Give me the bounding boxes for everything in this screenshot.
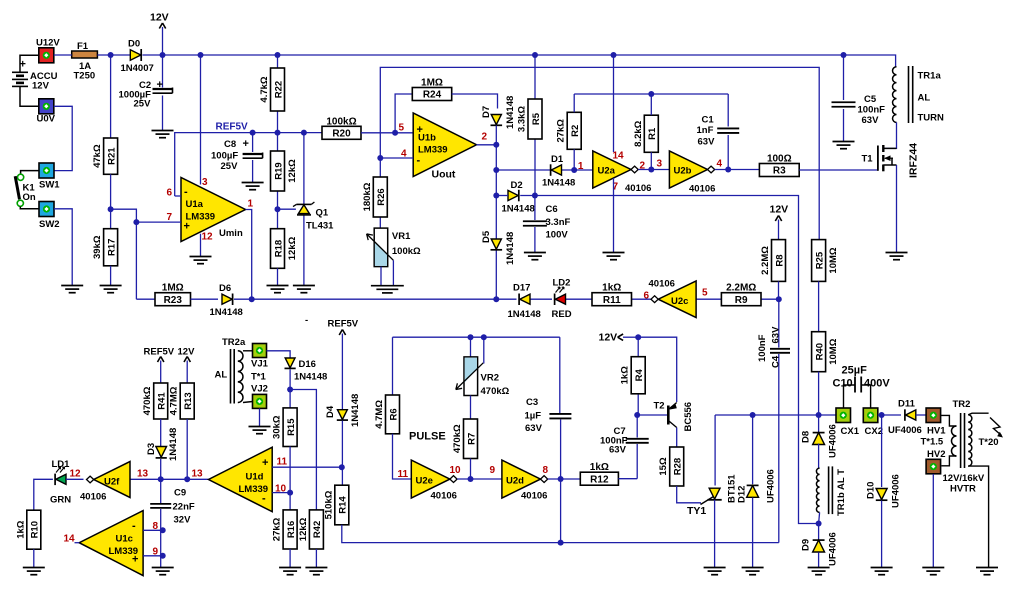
svg-text:AL: AL bbox=[918, 93, 931, 104]
resistor R2 bbox=[556, 112, 582, 149]
svg-text:R14: R14 bbox=[338, 496, 349, 514]
net label 12V mid bbox=[599, 332, 639, 344]
svg-text:LD2: LD2 bbox=[553, 278, 571, 289]
pin 11 label U1d bbox=[277, 457, 288, 468]
diode D2 bbox=[502, 180, 535, 215]
svg-text:C8: C8 bbox=[224, 139, 236, 150]
junction D12 top bbox=[750, 412, 756, 418]
svg-text:25V: 25V bbox=[221, 161, 239, 172]
svg-text:C9: C9 bbox=[174, 488, 186, 499]
wire feedback rail bbox=[574, 93, 728, 95]
pin 5 label U2c bbox=[702, 288, 708, 299]
svg-text:C5: C5 bbox=[864, 94, 877, 105]
connector CX2 bbox=[863, 408, 883, 437]
svg-text:6: 6 bbox=[644, 291, 650, 302]
svg-text:LM339: LM339 bbox=[109, 546, 139, 557]
connector VJ2 bbox=[251, 384, 268, 409]
diode D0 bbox=[121, 39, 154, 75]
svg-text:27kΩ: 27kΩ bbox=[556, 119, 567, 143]
svg-text:D11: D11 bbox=[898, 399, 916, 410]
svg-text:39kΩ: 39kΩ bbox=[92, 235, 103, 259]
junction pin7 bbox=[133, 219, 139, 225]
svg-text:25V: 25V bbox=[134, 99, 152, 110]
wire U12V to fuse bbox=[54, 54, 72, 56]
svg-text:D12: D12 bbox=[737, 486, 748, 503]
inverter U2a bbox=[593, 151, 638, 188]
svg-text:TY1: TY1 bbox=[687, 505, 706, 517]
ground U1a bbox=[190, 257, 212, 264]
svg-text:13: 13 bbox=[137, 469, 149, 480]
pin 10 label U1d bbox=[275, 484, 287, 495]
ground R10 bbox=[23, 568, 45, 575]
wire D9 ground bbox=[818, 552, 820, 567]
svg-text:LM339: LM339 bbox=[239, 484, 269, 495]
wire D10 ground bbox=[881, 501, 883, 568]
svg-text:5: 5 bbox=[399, 123, 405, 134]
pin 5 label bbox=[399, 123, 405, 134]
svg-text:6: 6 bbox=[167, 188, 173, 199]
svg-text:14: 14 bbox=[613, 151, 625, 162]
op-amp U1d (mirrored) bbox=[209, 447, 273, 512]
svg-text:12kΩ: 12kΩ bbox=[287, 236, 298, 260]
svg-text:TR2a: TR2a bbox=[222, 337, 246, 348]
svg-text:8: 8 bbox=[543, 465, 549, 476]
junction D2 row bbox=[493, 193, 499, 199]
svg-text:4.7MΩ: 4.7MΩ bbox=[374, 400, 385, 429]
svg-text:Uout: Uout bbox=[432, 169, 456, 181]
svg-text:63V: 63V bbox=[698, 137, 716, 148]
svg-text:TR1b AL T: TR1b AL T bbox=[836, 469, 847, 516]
wire SW2 to ground bbox=[54, 209, 72, 285]
svg-text:100nF: 100nF bbox=[858, 105, 886, 116]
svg-text:TR1a: TR1a bbox=[918, 71, 942, 82]
diode D12 bbox=[747, 415, 777, 567]
connector HV2 bbox=[926, 449, 945, 474]
wire R12-C7 bbox=[618, 478, 637, 480]
svg-text:RED: RED bbox=[552, 309, 572, 320]
wire C3 bbox=[559, 337, 562, 542]
net label 12V bottom-left bbox=[178, 347, 196, 384]
wire D16 to R42 line bbox=[290, 390, 316, 510]
svg-text:R7: R7 bbox=[466, 433, 477, 445]
svg-text:HV2: HV2 bbox=[927, 449, 945, 460]
svg-text:UF4006: UF4006 bbox=[828, 424, 839, 458]
led LD2 RED bbox=[552, 278, 572, 321]
wire LD2 row bbox=[496, 298, 779, 300]
junction D16 bbox=[287, 387, 293, 393]
label 40106 U2d bbox=[521, 491, 547, 502]
svg-text:1N4148: 1N4148 bbox=[508, 309, 541, 320]
svg-text:T1: T1 bbox=[862, 154, 874, 165]
resistor R17 bbox=[92, 229, 118, 266]
resistor R26 bbox=[362, 177, 388, 217]
ground Q1 bbox=[293, 286, 315, 293]
junction C6 top bbox=[532, 193, 538, 199]
pin 3 label U2b bbox=[657, 159, 663, 170]
wire VR2-R7 bbox=[470, 396, 472, 420]
svg-text:REF5V: REF5V bbox=[144, 347, 175, 358]
svg-text:12: 12 bbox=[70, 469, 82, 480]
svg-text:R1: R1 bbox=[647, 127, 658, 140]
wire TR1a to T1 drain bbox=[885, 122, 897, 148]
junction T2 base bbox=[634, 412, 640, 418]
wire TR1b bottom bbox=[819, 512, 820, 523]
resistor R25 bbox=[812, 240, 840, 282]
svg-text:2.2MΩ: 2.2MΩ bbox=[760, 246, 771, 275]
ground C5 bbox=[833, 142, 855, 149]
svg-text:3: 3 bbox=[657, 159, 663, 170]
svg-text:-: - bbox=[132, 520, 136, 532]
diode D9 bbox=[801, 524, 839, 567]
wire D4 bottom bbox=[341, 421, 343, 486]
led LD1 GRN bbox=[34, 459, 71, 510]
svg-text:U1d: U1d bbox=[246, 472, 264, 483]
svg-text:D4: D4 bbox=[325, 405, 336, 418]
svg-text:R42: R42 bbox=[312, 521, 323, 538]
svg-text:R28: R28 bbox=[673, 458, 684, 475]
svg-text:100kΩ: 100kΩ bbox=[392, 246, 421, 257]
junction R24 left bbox=[392, 130, 398, 136]
svg-text:SW1: SW1 bbox=[39, 180, 60, 191]
connector CX1 bbox=[836, 408, 860, 437]
svg-text:U2e: U2e bbox=[416, 476, 433, 487]
svg-text:1MΩ: 1MΩ bbox=[421, 78, 443, 89]
svg-text:10MΩ: 10MΩ bbox=[828, 338, 839, 364]
capacitor C8 bbox=[211, 138, 263, 172]
wire R25-R40 bbox=[818, 281, 820, 331]
junction U2a out bbox=[648, 167, 654, 173]
wire R24 right leg bbox=[452, 94, 498, 109]
wire bottom main row bbox=[130, 478, 209, 480]
svg-text:U1a: U1a bbox=[186, 199, 204, 210]
pin 4 label U2b bbox=[717, 159, 723, 170]
svg-text:R23: R23 bbox=[164, 295, 183, 306]
resistor R22 bbox=[259, 68, 285, 111]
wire R18 ground bbox=[277, 268, 279, 285]
svg-text:SW2: SW2 bbox=[39, 219, 60, 230]
resistor R18 bbox=[271, 229, 299, 269]
svg-text:63V: 63V bbox=[862, 115, 880, 126]
svg-text:T*20: T*20 bbox=[979, 437, 999, 448]
svg-text:R5: R5 bbox=[531, 112, 542, 125]
transformer TR1a bbox=[893, 66, 944, 124]
wire C4 stem bbox=[778, 299, 780, 542]
svg-text:100nF: 100nF bbox=[757, 334, 768, 362]
resistor R41 bbox=[142, 383, 168, 419]
ground VJ2 bbox=[249, 427, 271, 434]
svg-text:3.3kΩ: 3.3kΩ bbox=[517, 106, 528, 132]
svg-text:40106: 40106 bbox=[80, 492, 106, 503]
junction U1b out bbox=[493, 142, 499, 148]
mosfet T1 IRFZ44 bbox=[862, 143, 920, 178]
pin 14 label bbox=[613, 151, 625, 162]
inverter U2f (mirrored) bbox=[87, 462, 131, 498]
svg-text:1kΩ: 1kΩ bbox=[590, 462, 609, 473]
svg-text:D2: D2 bbox=[511, 180, 523, 191]
svg-text:12V: 12V bbox=[178, 347, 196, 358]
wire pin8 bbox=[143, 529, 163, 531]
pin 9 label bbox=[153, 547, 159, 558]
wire main 12V rail bbox=[201, 55, 896, 67]
inverter U2c (mirrored) bbox=[651, 281, 696, 318]
svg-text:1nF: 1nF bbox=[697, 125, 714, 136]
wire U1c out stub bbox=[75, 542, 80, 544]
wire R23-D6 bbox=[191, 298, 219, 300]
svg-text:13: 13 bbox=[192, 469, 204, 480]
svg-text:LM339: LM339 bbox=[186, 212, 216, 223]
label PULSE bbox=[409, 431, 446, 443]
svg-text:C4: C4 bbox=[771, 355, 782, 368]
resistor R24 bbox=[412, 78, 451, 101]
wire ref to Q1 bbox=[278, 208, 296, 210]
svg-text:D8: D8 bbox=[801, 431, 812, 443]
junction REF5V Q1 bbox=[301, 130, 307, 136]
junction rail C5 bbox=[841, 52, 847, 58]
svg-text:30kΩ: 30kΩ bbox=[272, 415, 283, 439]
svg-text:D10: D10 bbox=[866, 482, 877, 499]
svg-text:12V: 12V bbox=[150, 12, 169, 24]
label 40106 U2e bbox=[431, 491, 457, 502]
svg-text:R17: R17 bbox=[106, 239, 117, 256]
pin 8 label U2d bbox=[543, 465, 549, 476]
junction REF5V R19 bbox=[275, 130, 281, 136]
diode D7 bbox=[481, 96, 516, 129]
svg-text:1N4007: 1N4007 bbox=[121, 63, 154, 74]
svg-text:U2a: U2a bbox=[598, 166, 616, 177]
label 40106 U2f bbox=[80, 492, 106, 503]
svg-text:U2b: U2b bbox=[674, 166, 692, 177]
wire LD1 to U2f bbox=[66, 478, 84, 480]
svg-text:1kΩ: 1kΩ bbox=[602, 283, 621, 294]
svg-text:1N4148: 1N4148 bbox=[350, 394, 361, 427]
junction pin9 bbox=[160, 553, 166, 559]
capacitor C5 bbox=[832, 94, 886, 126]
pin 7 label bbox=[167, 212, 173, 223]
svg-text:10MΩ: 10MΩ bbox=[828, 247, 839, 273]
svg-text:40106: 40106 bbox=[431, 491, 457, 502]
svg-text:1kΩ: 1kΩ bbox=[620, 366, 631, 385]
svg-text:T2: T2 bbox=[654, 401, 665, 412]
wire osc rail bbox=[393, 336, 560, 338]
resistor R28 bbox=[658, 447, 684, 486]
ground TR2 secondary bbox=[976, 568, 998, 575]
wire pin11 row bbox=[272, 466, 342, 468]
wire C7 stem bbox=[636, 415, 638, 479]
ground C9 bbox=[152, 568, 174, 575]
wire pin10 stub bbox=[272, 492, 290, 494]
svg-text:UF4006: UF4006 bbox=[891, 474, 902, 508]
svg-text:U0V: U0V bbox=[37, 114, 56, 125]
svg-text:UF4006: UF4006 bbox=[888, 425, 922, 436]
ground C8 bbox=[242, 183, 264, 190]
wire U2e out row bbox=[457, 478, 502, 480]
wire R5 top bbox=[534, 55, 536, 99]
svg-text:1N4148: 1N4148 bbox=[210, 307, 243, 318]
svg-text:D16: D16 bbox=[299, 359, 316, 370]
svg-text:180kΩ: 180kΩ bbox=[362, 182, 373, 211]
svg-text:GRN: GRN bbox=[50, 495, 71, 506]
wire R16 ground bbox=[289, 549, 291, 567]
pin 7 label U2a bbox=[613, 182, 619, 193]
junction CX1 left bbox=[816, 412, 822, 418]
svg-text:32V: 32V bbox=[174, 515, 192, 526]
diode D1 bbox=[542, 154, 575, 189]
svg-text:100V: 100V bbox=[546, 230, 569, 241]
junction R1 top bbox=[648, 91, 654, 97]
ground R18 bbox=[267, 286, 289, 293]
capacitor C10 bbox=[833, 365, 891, 409]
svg-text:U2c: U2c bbox=[671, 296, 688, 307]
capacitor C2 bbox=[119, 79, 173, 110]
capacitor C6 bbox=[523, 204, 571, 241]
svg-text:R13: R13 bbox=[183, 392, 194, 409]
svg-text:5: 5 bbox=[702, 288, 708, 299]
resistor R42 bbox=[298, 510, 324, 549]
wire R15 bottom bbox=[289, 447, 291, 510]
pin 2 label bbox=[482, 132, 488, 143]
svg-text:R10: R10 bbox=[30, 521, 41, 538]
pin 6 label U2c bbox=[644, 291, 650, 302]
svg-text:R11: R11 bbox=[603, 295, 621, 306]
junction pin8 bbox=[160, 527, 166, 533]
svg-text:U12V: U12V bbox=[36, 38, 60, 49]
ground U2a bbox=[603, 253, 625, 260]
svg-text:1µF: 1µF bbox=[525, 411, 542, 422]
svg-text:1MΩ: 1MΩ bbox=[162, 283, 184, 294]
wire R8 bottom bbox=[778, 281, 780, 299]
op-amp U1b bbox=[413, 113, 476, 177]
svg-text:-: - bbox=[417, 155, 421, 167]
pin 6 label bbox=[167, 188, 173, 199]
svg-text:470kΩ: 470kΩ bbox=[481, 386, 510, 397]
wire TR2a-VJ2 bbox=[243, 402, 253, 403]
svg-text:R9: R9 bbox=[735, 295, 748, 306]
diode D6 bbox=[210, 283, 243, 318]
wire U1a ground pin12 bbox=[200, 234, 202, 256]
svg-text:12kΩ: 12kΩ bbox=[287, 159, 298, 183]
svg-text:8.2kΩ: 8.2kΩ bbox=[633, 120, 644, 146]
resistor R15 bbox=[272, 408, 298, 447]
wire battery to U0V bbox=[20, 86, 39, 106]
ground T1 bbox=[886, 253, 908, 260]
wire R19 stubs bbox=[277, 133, 279, 229]
wire U2b out bbox=[715, 169, 760, 171]
wire VJ2 ground bbox=[259, 408, 261, 426]
resistor R8 bbox=[760, 240, 786, 282]
wire VR2 wiper to rail bbox=[482, 337, 485, 363]
svg-text:D6: D6 bbox=[219, 283, 231, 294]
wire R20 to U1b pin5 bbox=[361, 132, 413, 134]
svg-text:CX2: CX2 bbox=[865, 426, 883, 437]
resistor R4 bbox=[620, 357, 646, 394]
wire pin7 bbox=[111, 209, 181, 299]
junction D1 row bbox=[493, 167, 499, 173]
svg-text:HV1: HV1 bbox=[927, 426, 946, 437]
wire R42 ground bbox=[315, 549, 317, 567]
svg-text:10: 10 bbox=[450, 465, 462, 476]
resistor R3 bbox=[759, 154, 799, 177]
pin 11 label U2e bbox=[398, 469, 409, 480]
resistor R10 bbox=[15, 510, 41, 549]
svg-text:1: 1 bbox=[578, 161, 584, 172]
svg-text:12V: 12V bbox=[770, 204, 789, 216]
inverter U2e bbox=[411, 460, 457, 498]
svg-text:1N4148: 1N4148 bbox=[294, 372, 327, 383]
junction R13 row bbox=[184, 476, 190, 482]
svg-text:7: 7 bbox=[167, 212, 173, 223]
svg-text:25µF: 25µF bbox=[842, 365, 868, 377]
svg-text:1N4148: 1N4148 bbox=[505, 232, 516, 265]
svg-text:12: 12 bbox=[202, 232, 214, 243]
svg-text:R41: R41 bbox=[157, 392, 168, 410]
node 12V arrow top bbox=[150, 12, 169, 56]
svg-text:400V: 400V bbox=[864, 378, 890, 390]
svg-text:On: On bbox=[23, 192, 36, 203]
svg-text:2.2MΩ: 2.2MΩ bbox=[726, 283, 756, 294]
svg-text:T*1.5: T*1.5 bbox=[921, 437, 944, 448]
resistor R23 bbox=[155, 283, 191, 306]
capacitor C7 bbox=[600, 426, 649, 456]
junction D3 row bbox=[158, 476, 164, 482]
junction R21-R17 bbox=[108, 206, 114, 212]
transformer TR2a bbox=[215, 337, 246, 404]
ground C2 bbox=[152, 131, 174, 138]
svg-text:1: 1 bbox=[248, 199, 254, 210]
wire R1 stubs bbox=[650, 94, 652, 170]
svg-text:U1b: U1b bbox=[418, 133, 436, 144]
svg-text:40106: 40106 bbox=[689, 184, 715, 195]
svg-text:11: 11 bbox=[398, 469, 409, 480]
label T*1.5 bbox=[921, 437, 944, 448]
wire U1a output bbox=[246, 210, 252, 300]
capacitor C9 bbox=[150, 488, 195, 526]
svg-text:3: 3 bbox=[202, 177, 208, 188]
wire VR1 bottom bbox=[380, 267, 382, 286]
svg-text:R40: R40 bbox=[814, 343, 825, 360]
connector U0V bbox=[37, 99, 56, 125]
svg-text:R12: R12 bbox=[590, 474, 609, 485]
junction REF5V C8 bbox=[250, 130, 256, 136]
junction CX2 right bbox=[879, 412, 885, 418]
wire U1b pin4 bbox=[380, 157, 413, 159]
svg-text:R19: R19 bbox=[273, 162, 284, 179]
wire pin6 stub bbox=[175, 195, 181, 197]
resistor R6 bbox=[374, 395, 400, 434]
svg-text:510kΩ: 510kΩ bbox=[323, 490, 334, 519]
pin 12 label bbox=[202, 232, 214, 243]
op-amp U1a bbox=[181, 178, 246, 242]
wire C9 stem bbox=[160, 479, 162, 567]
pin 13 label U2f bbox=[137, 469, 149, 480]
svg-text:D5: D5 bbox=[481, 230, 492, 243]
wire T2 collector bbox=[676, 428, 678, 448]
wire C6 stems bbox=[534, 196, 536, 253]
resistor R21 bbox=[92, 138, 118, 174]
svg-text:LM339: LM339 bbox=[418, 145, 448, 156]
wire C1 stem bbox=[727, 94, 729, 170]
junction fuse output bbox=[108, 52, 114, 58]
junction rail R5 bbox=[532, 52, 538, 58]
svg-text:40106: 40106 bbox=[649, 279, 675, 290]
resistor R14 bbox=[323, 485, 349, 525]
svg-text:+: + bbox=[243, 138, 249, 150]
svg-text:11: 11 bbox=[277, 457, 288, 468]
resistor R11 bbox=[592, 283, 632, 306]
wire battery to U12V bbox=[20, 55, 39, 72]
svg-text:1N4148: 1N4148 bbox=[168, 428, 179, 461]
svg-text:U2f: U2f bbox=[104, 477, 120, 488]
svg-text:CX1: CX1 bbox=[841, 426, 860, 437]
